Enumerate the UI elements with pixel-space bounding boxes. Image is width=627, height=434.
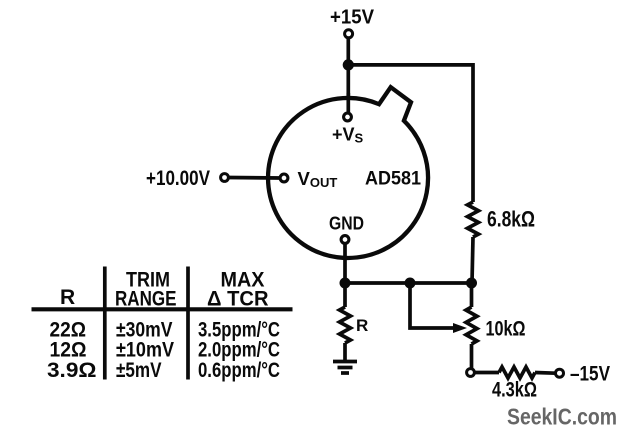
terminal pot bottom bbox=[467, 369, 475, 377]
terminal +10.00V bbox=[221, 174, 229, 182]
wire GND pin down to node bbox=[343, 244, 347, 284]
svg-text:3.9Ω: 3.9Ω bbox=[47, 359, 97, 382]
svg-text:R: R bbox=[60, 286, 75, 309]
svg-text:4.3kΩ: 4.3kΩ bbox=[492, 379, 537, 402]
wire 4.3k to -15V terminal bbox=[535, 371, 556, 375]
svg-text:Δ TCR: Δ TCR bbox=[207, 288, 269, 311]
terminal -15V bbox=[556, 369, 564, 377]
svg-text:AD581: AD581 bbox=[365, 168, 421, 190]
wire output terminal to Vout pin bbox=[229, 176, 281, 180]
wire node C down to pot top bbox=[470, 283, 474, 307]
pin +Vs bbox=[344, 113, 352, 121]
wire node A down to resistor R bbox=[343, 283, 347, 307]
wire +15V terminal to +Vs pin bbox=[346, 38, 350, 113]
svg-text:R: R bbox=[356, 316, 368, 335]
svg-text:6.8kΩ: 6.8kΩ bbox=[487, 207, 535, 232]
wire node B down and right to wiper bbox=[410, 283, 453, 328]
resistor 6.8k bbox=[468, 202, 479, 237]
svg-text:GND: GND bbox=[329, 213, 364, 234]
pin GND bbox=[341, 236, 349, 244]
svg-text:+10.00V: +10.00V bbox=[146, 167, 210, 190]
svg-text:0.6ppm/°C: 0.6ppm/°C bbox=[198, 359, 280, 382]
node top junction bbox=[343, 59, 354, 70]
ground bbox=[333, 362, 357, 374]
node C (gnd bus right) bbox=[466, 278, 477, 289]
svg-text:–15V: –15V bbox=[570, 363, 610, 386]
IC U1 AD581 voltage reference can body with tab bbox=[268, 87, 428, 258]
wire +Vs stub inside can bbox=[346, 93, 350, 114]
wire R to ground bbox=[343, 343, 347, 361]
svg-text:SeekIC.com: SeekIC.com bbox=[507, 403, 617, 429]
svg-text:10kΩ: 10kΩ bbox=[486, 318, 526, 341]
resistor 4.3k bbox=[499, 367, 535, 378]
pin Vout bbox=[280, 174, 288, 182]
svg-text:RANGE: RANGE bbox=[115, 288, 177, 311]
node B (gnd bus middle) bbox=[405, 278, 416, 289]
wire top horizontal to right branch bbox=[348, 65, 473, 202]
wire bottom bus horizontal bbox=[345, 281, 472, 285]
resistor R bbox=[340, 307, 351, 343]
wire pot bottom to terminal bbox=[470, 344, 474, 369]
potentiometer 10k element bbox=[466, 307, 477, 344]
svg-text:+15V: +15V bbox=[330, 7, 375, 29]
wiper arrow of potentiometer bbox=[453, 323, 467, 333]
svg-text:±5mV: ±5mV bbox=[116, 359, 162, 382]
table: trim range / max TCR bbox=[32, 267, 293, 383]
wire 6.8k bottom to node C bbox=[472, 237, 473, 283]
terminal +15V bbox=[345, 30, 353, 38]
wire terminal to 4.3k bbox=[475, 371, 499, 375]
node A (gnd bus left) bbox=[340, 278, 351, 289]
